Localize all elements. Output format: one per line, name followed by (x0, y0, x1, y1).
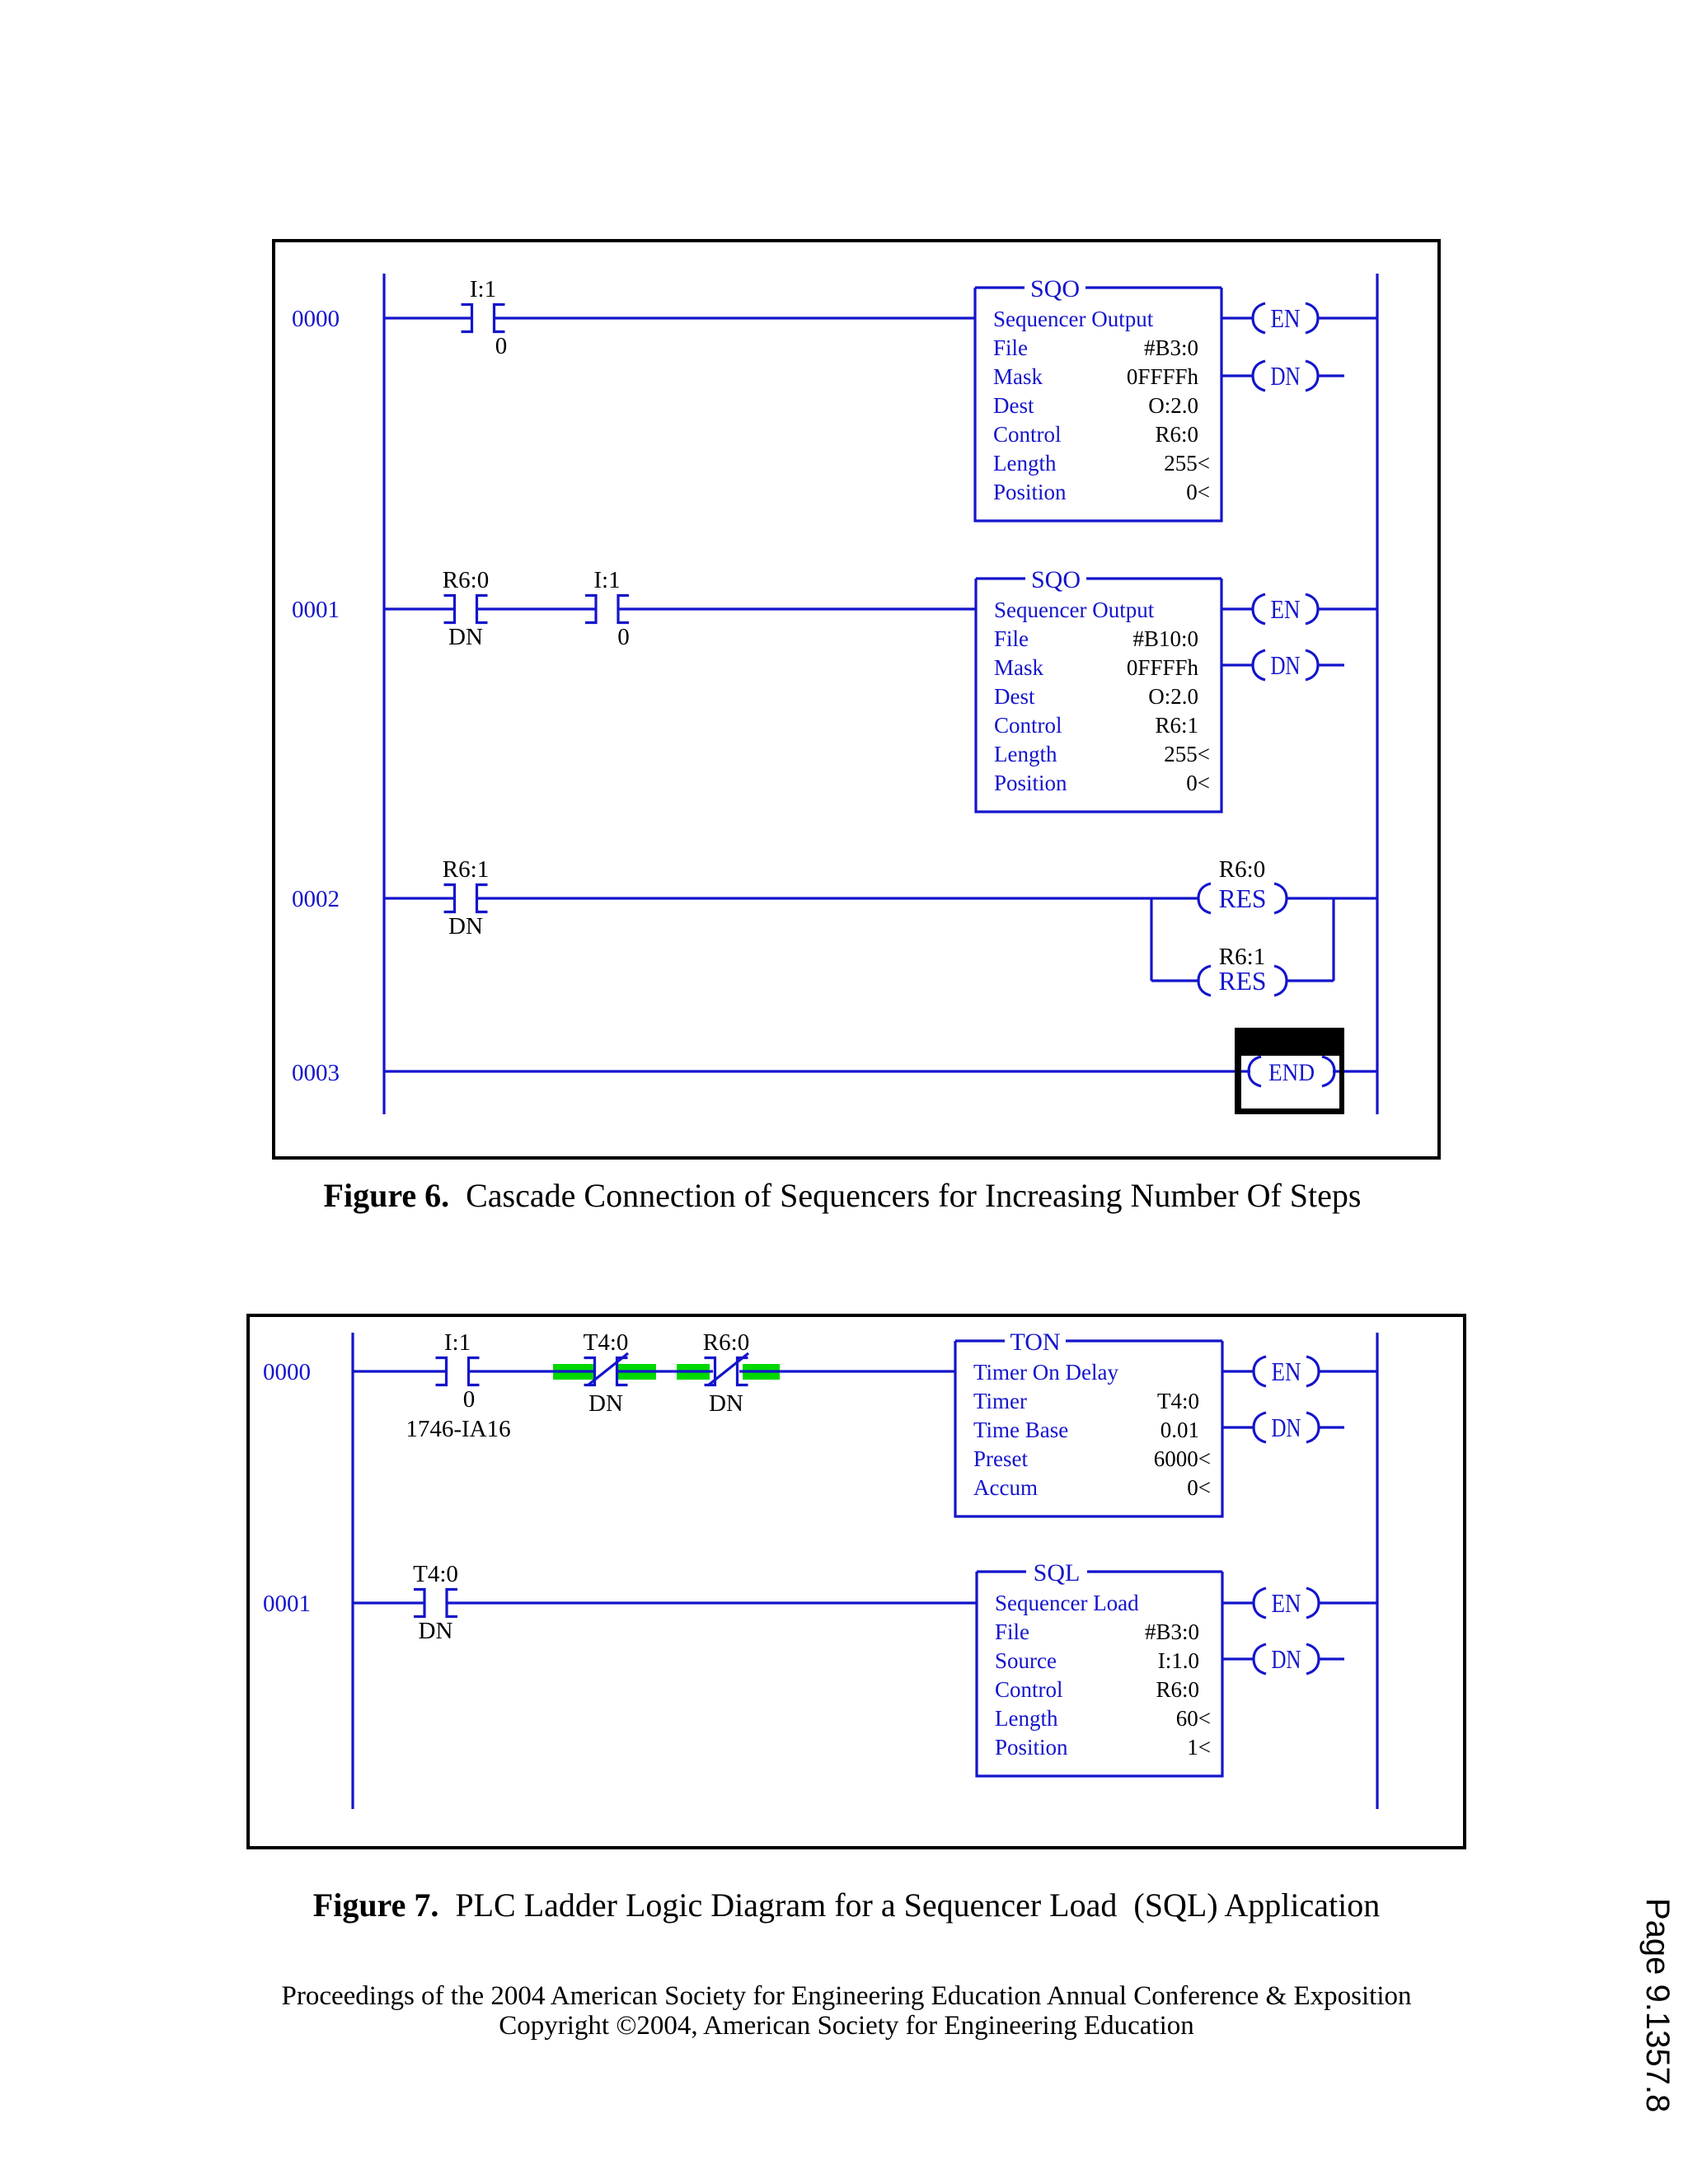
wire rung 0001 contact to SQO box (618, 607, 976, 610)
wire EN coil to right rail rung 0001 (1317, 607, 1377, 610)
wire EN coil to right rail fig7 rung 0001 (1318, 1601, 1377, 1604)
wire rung 0003 (384, 1070, 1377, 1072)
DN coil TON (1254, 1413, 1266, 1442)
svg-text:RES: RES (1219, 883, 1267, 913)
svg-text:RES: RES (1219, 966, 1267, 996)
svg-text:0.01: 0.01 (1160, 1418, 1199, 1442)
wire rung 0000 left segment (384, 316, 472, 319)
svg-text:Copyright ©2004, American Soci: Copyright ©2004, American Society for En… (499, 2011, 1193, 2041)
DN coil rung 0001 (1253, 650, 1265, 680)
svg-text:O:2.0: O:2.0 (1148, 393, 1198, 418)
svg-text:R6:1: R6:1 (443, 856, 489, 883)
contact I:1 bit 0 (XIC) rung 0001 (585, 596, 596, 623)
svg-text:Sequencer Output: Sequencer Output (993, 307, 1154, 331)
svg-text:0<: 0< (1186, 771, 1210, 795)
figure 6 left power rail (382, 274, 385, 1114)
svg-text:0: 0 (463, 1386, 476, 1413)
svg-text:Mask: Mask (993, 364, 1043, 389)
svg-text:DN: DN (419, 1618, 453, 1644)
contact R6:0/DN (XIO, normally closed) rung 0000 fig7 (705, 1358, 715, 1385)
DN coil stub wire rung 0000 (1317, 374, 1344, 377)
svg-text:DN: DN (448, 624, 483, 650)
svg-text:Control: Control (995, 1677, 1063, 1702)
SQL sequencer load instruction block (977, 1572, 1222, 1776)
svg-text:O:2.0: O:2.0 (1148, 684, 1198, 709)
svg-text:EN: EN (1272, 1588, 1301, 1618)
wire SQO box to EN coil rung 0001 (1221, 607, 1254, 610)
svg-text:Page 9.1357.8: Page 9.1357.8 (1639, 1898, 1676, 2112)
TON timer instruction block T4:0 (955, 1341, 1222, 1516)
svg-text:0001: 0001 (292, 597, 340, 623)
svg-text:Preset: Preset (973, 1446, 1028, 1471)
svg-text:R6:0: R6:0 (1219, 856, 1265, 883)
DN coil SQL (1254, 1644, 1266, 1674)
wire TON box to EN coil (1222, 1370, 1254, 1372)
wire RES coil to right rail rung 0002 (1286, 897, 1377, 899)
svg-text:T4:0: T4:0 (413, 1561, 458, 1587)
DN coil stub wire fig7 rung 0000 (1318, 1426, 1344, 1428)
svg-text:Figure 6. Cascade Connection: Figure 6. Cascade Connection of Sequence… (324, 1177, 1362, 1214)
wire EN coil to right rail rung 0000 (1317, 316, 1377, 319)
DN coil stub wire fig7 rung 0001 (1318, 1657, 1344, 1660)
svg-text:Timer: Timer (973, 1389, 1027, 1413)
wire T4:0 contact to SQL box (447, 1601, 977, 1604)
svg-text:END: END (1268, 1059, 1315, 1086)
wire SQL box to EN coil (1222, 1601, 1254, 1604)
svg-text:Timer On Delay: Timer On Delay (973, 1360, 1118, 1385)
svg-text:DN: DN (1272, 1644, 1301, 1674)
svg-text:I:1: I:1 (444, 1329, 471, 1356)
EN coil rung 0000 (1253, 303, 1265, 333)
svg-text:0FFFFh: 0FFFFh (1127, 364, 1199, 389)
svg-text:R6:1: R6:1 (1219, 944, 1265, 970)
RES coil R6:1 on branch (1198, 966, 1211, 996)
svg-text:Length: Length (993, 451, 1057, 476)
svg-text:File: File (995, 1619, 1029, 1644)
svg-text:Length: Length (995, 1706, 1058, 1731)
END block black border (1235, 1028, 1344, 1114)
svg-text:Length: Length (994, 742, 1057, 766)
END coil (1241, 1070, 1250, 1072)
svg-text:R6:1: R6:1 (1155, 713, 1198, 738)
svg-text:#B10:0: #B10:0 (1132, 626, 1198, 651)
wire rung 0001 left segment (384, 607, 455, 610)
svg-text:0000: 0000 (263, 1359, 311, 1385)
svg-text:Dest: Dest (994, 684, 1035, 709)
contact T4:0/DN (XIC) rung 0001 fig7 (414, 1590, 424, 1617)
svg-text:1746-IA16: 1746-IA16 (406, 1416, 510, 1442)
svg-text:Control: Control (993, 422, 1062, 447)
svg-text:Figure 7. PLC Ladder Logic Di: Figure 7. PLC Ladder Logic Diagram for a… (313, 1886, 1380, 1924)
svg-text:EN: EN (1272, 1357, 1301, 1386)
wire SQL box to DN coil (1222, 1657, 1254, 1660)
wire between I:1 and T4:0 contacts (468, 1370, 595, 1372)
contact R6:1/DN (XIC) rung 0002 (444, 885, 455, 912)
svg-text:6000<: 6000< (1154, 1446, 1211, 1471)
contact T4:0/DN (XIO, normally closed) rung 0000 fig7 (584, 1358, 595, 1385)
svg-text:DN: DN (1271, 650, 1301, 680)
figure 7 right power rail (1376, 1333, 1378, 1809)
EN coil rung 0001 (1253, 594, 1265, 624)
svg-text:Time Base: Time Base (973, 1418, 1068, 1442)
contact I:1 bit 0 (XIC) rung 0000 fig7, module 1746-IA16 (436, 1358, 447, 1385)
branch lower wire right segment (1286, 979, 1334, 982)
svg-text:Sequencer Load: Sequencer Load (995, 1591, 1139, 1615)
figure 7 outer frame (248, 1315, 1465, 1848)
svg-text:EN: EN (1271, 594, 1301, 624)
svg-text:0<: 0< (1186, 480, 1210, 504)
svg-text:Position: Position (994, 771, 1067, 795)
svg-text:DN: DN (448, 913, 483, 940)
SQO instruction block (File #B3:0) rung 0000 (975, 288, 1221, 521)
branch lower wire left segment (1151, 979, 1199, 982)
wire rung 0001 between contacts (476, 607, 596, 610)
svg-text:0000: 0000 (292, 306, 340, 332)
wire TON box to DN coil (1222, 1426, 1254, 1428)
svg-text:EN: EN (1271, 303, 1301, 333)
svg-text:0: 0 (495, 333, 508, 359)
svg-text:Accum: Accum (973, 1475, 1038, 1500)
figure 6 outer frame (274, 241, 1439, 1158)
svg-text:0003: 0003 (292, 1060, 340, 1086)
wire rung 0002 left segment (384, 897, 455, 899)
figure 7 left power rail (351, 1333, 354, 1809)
svg-text:TON: TON (1010, 1329, 1060, 1356)
green highlight bars around T4:0 contact (553, 1364, 594, 1380)
svg-text:60<: 60< (1176, 1706, 1211, 1731)
SQO instruction block (File #B10:0) rung 0001 (976, 579, 1221, 812)
svg-text:R6:0: R6:0 (443, 567, 489, 593)
wire between T4:0 and R6:0 contacts (617, 1370, 713, 1372)
svg-text:Dest: Dest (993, 393, 1034, 418)
svg-text:Control: Control (994, 713, 1062, 738)
svg-text:0<: 0< (1187, 1475, 1211, 1500)
svg-text:I:1: I:1 (470, 276, 496, 302)
figure 6 right power rail (1376, 274, 1378, 1114)
svg-text:#B3:0: #B3:0 (1145, 1619, 1199, 1644)
svg-text:DN: DN (588, 1390, 623, 1417)
green highlight bars around R6:0 contact (677, 1364, 710, 1380)
svg-text:Sequencer Output: Sequencer Output (994, 598, 1155, 622)
EN coil SQL (1254, 1588, 1266, 1618)
wire SQO box to DN coil rung 0001 (1221, 663, 1254, 666)
svg-text:0: 0 (617, 624, 630, 650)
DN coil stub wire rung 0001 (1317, 663, 1344, 666)
svg-text:0FFFFh: 0FFFFh (1127, 655, 1199, 680)
wire R6:0 contact to TON box (739, 1370, 955, 1372)
svg-text:File: File (993, 335, 1028, 360)
DN coil rung 0000 (1253, 361, 1265, 391)
wire EN coil to right rail fig7 rung 0000 (1318, 1370, 1377, 1372)
RES coil R6:0 rung 0002 (1198, 883, 1211, 913)
EN coil TON (1254, 1357, 1266, 1386)
svg-text:255<: 255< (1164, 742, 1210, 766)
svg-text:R6:0: R6:0 (1156, 1677, 1199, 1702)
svg-text:I:1: I:1 (593, 567, 620, 593)
svg-text:I:1.0: I:1.0 (1158, 1648, 1199, 1673)
wire rung 0001 fig7 left segment (353, 1601, 424, 1604)
wire rung 0000 fig7 left segment (353, 1370, 447, 1372)
wire SQO box to EN coil (1221, 316, 1254, 319)
wire SQO box to DN coil rung 0000 (1221, 374, 1254, 377)
svg-text:0002: 0002 (292, 886, 340, 912)
svg-text:Mask: Mask (994, 655, 1043, 680)
svg-text:SQO: SQO (1030, 275, 1080, 302)
branch right vertical wire rung 0002 (1332, 898, 1334, 981)
svg-text:Proceedings of the 2004 Americ: Proceedings of the 2004 American Society… (282, 1981, 1412, 2011)
contact R6:0/DN (XIC) rung 0001 (444, 596, 455, 623)
wire rung 0002 contact to RES coil (476, 897, 1199, 899)
svg-text:Position: Position (995, 1735, 1068, 1760)
svg-text:DN: DN (709, 1390, 743, 1417)
svg-text:Position: Position (993, 480, 1067, 504)
svg-text:File: File (994, 626, 1029, 651)
svg-text:255<: 255< (1164, 451, 1210, 476)
svg-text:SQL: SQL (1034, 1559, 1081, 1586)
svg-text:T4:0: T4:0 (1157, 1389, 1199, 1413)
contact I:1 bit 0 (XIC) rung 0000 (462, 305, 472, 332)
svg-text:R6:0: R6:0 (703, 1329, 749, 1356)
svg-text:Source: Source (995, 1648, 1057, 1673)
svg-text:1<: 1< (1187, 1735, 1211, 1760)
wire rung 0000 contact to SQO box (494, 316, 975, 319)
svg-text:SQO: SQO (1031, 566, 1081, 593)
svg-text:0001: 0001 (263, 1591, 311, 1617)
svg-text:DN: DN (1272, 1413, 1301, 1442)
branch left vertical wire rung 0002 (1150, 898, 1152, 981)
svg-text:R6:0: R6:0 (1155, 422, 1198, 447)
svg-text:DN: DN (1271, 361, 1301, 391)
svg-text:T4:0: T4:0 (584, 1329, 629, 1356)
svg-text:#B3:0: #B3:0 (1144, 335, 1198, 360)
